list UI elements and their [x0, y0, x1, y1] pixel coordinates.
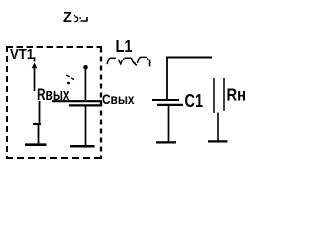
- node Zвых label (impedance seen at transistor output): [63, 10, 87, 26]
- current source arrow (output generator): [32, 57, 38, 91]
- wire (C1 lower lead): [168, 106, 170, 142]
- svg-text:Rн: Rн: [227, 85, 247, 105]
- capacitor C1: [152, 100, 183, 105]
- inductor L1 coil (degraded arcs): [107, 57, 149, 65]
- resistor Rн body (two vertical sides, degraded rectangle): [214, 78, 224, 113]
- ground bar (left branch): [25, 143, 47, 146]
- dashed arrow from Zвых label into box: [66, 75, 74, 84]
- ground bar (Rн branch): [208, 140, 228, 142]
- svg-text:C1: C1: [185, 91, 204, 111]
- wire (Cвых upper lead): [84, 68, 86, 100]
- svg-text:Свых: Свых: [102, 91, 135, 107]
- capacitor Свых: [52, 101, 102, 105]
- wire (Cвых lower lead): [85, 107, 87, 146]
- ground bar (C1 branch): [156, 141, 176, 143]
- node junction dot on Cвых branch: [83, 65, 88, 70]
- wire (C1 upper lead): [166, 58, 168, 100]
- wire (top rail to the right): [166, 57, 212, 59]
- wire (Rн lower lead): [217, 113, 219, 141]
- svg-text:VT1: VT1: [10, 46, 34, 63]
- svg-text:L1: L1: [116, 36, 133, 56]
- transistor VT1 equivalent circuit dashed box: [6, 46, 103, 159]
- svg-text:Z: Z: [63, 10, 72, 26]
- ground bar (Cвых branch): [70, 145, 95, 148]
- resistor Rвых body (degraded) and lead: [33, 101, 41, 144]
